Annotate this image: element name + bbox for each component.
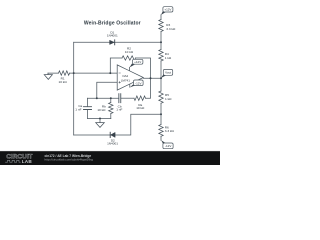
wire Rb branch bottom lead bbox=[110, 114, 112, 119]
svg-text:1N4001: 1N4001 bbox=[107, 141, 118, 145]
flag -12V op-amp bbox=[130, 80, 143, 87]
wire left vertical (top limiter to bottom limiter) bbox=[73, 42, 75, 135]
wire rail R4-R5 bbox=[160, 61, 162, 91]
svg-text:3.3 kΩ: 3.3 kΩ bbox=[166, 27, 176, 31]
wire rail R6 bottom lead bbox=[160, 136, 162, 140]
wire series arm drop bbox=[146, 78, 151, 98]
wire noninverting tap bbox=[97, 82, 117, 98]
svg-text:1 kΩ: 1 kΩ bbox=[165, 97, 172, 101]
svg-text:R3: R3 bbox=[166, 23, 170, 27]
svg-text:1N4001: 1N4001 bbox=[107, 34, 118, 38]
diode D2 bbox=[110, 132, 115, 138]
footer bar bbox=[0, 151, 220, 165]
svg-text:R4: R4 bbox=[165, 52, 169, 56]
resistor R2 bbox=[122, 56, 136, 60]
svg-text:Wein-Bridge Oscillator: Wein-Bridge Oscillator bbox=[84, 21, 141, 27]
wire Ra to Cb bbox=[121, 97, 134, 99]
svg-text:-12V: -12V bbox=[135, 82, 141, 86]
flag -12V bottom bbox=[161, 140, 173, 148]
diode D1 bbox=[110, 39, 115, 45]
flag +12V op-amp bbox=[130, 59, 143, 67]
component value labels bbox=[59, 23, 176, 145]
junction node dots bbox=[73, 41, 162, 119]
capacitor Cb bbox=[119, 94, 121, 103]
wire rail R3-R4 bbox=[160, 32, 162, 50]
op-amp OA2 body bbox=[117, 65, 143, 90]
wire Ca branch bbox=[87, 98, 89, 118]
schematic title bbox=[84, 21, 141, 27]
svg-text:10 kΩ: 10 kΩ bbox=[97, 108, 106, 112]
ground G2 stub bbox=[99, 119, 101, 123]
svg-text:10 kΩ: 10 kΩ bbox=[59, 80, 68, 84]
svg-text:3.3 kΩ: 3.3 kΩ bbox=[165, 129, 175, 133]
svg-text:+12V: +12V bbox=[164, 8, 171, 12]
capacitor Ca bbox=[84, 107, 92, 110]
svg-text:10 kΩ: 10 kΩ bbox=[136, 106, 145, 110]
wire top limiter (node A to node at right rail) bbox=[74, 41, 161, 43]
svg-text:1 nF: 1 nF bbox=[116, 107, 122, 111]
svg-text:LAB: LAB bbox=[22, 159, 33, 164]
wire output bbox=[143, 77, 161, 79]
resistor R4 bbox=[159, 50, 163, 62]
resistor R3 bbox=[159, 20, 163, 32]
wire bottom limiter bbox=[74, 114, 161, 135]
wire inverting input net bbox=[48, 72, 117, 74]
flag Vout bbox=[161, 69, 173, 78]
wire Rb branch top lead bbox=[110, 98, 112, 102]
wire feedback left vertical bbox=[110, 58, 122, 73]
resistor R5 bbox=[159, 91, 163, 103]
svg-text:OA2: OA2 bbox=[122, 74, 128, 78]
wire feedback right to output bbox=[136, 58, 151, 78]
svg-text:R5: R5 bbox=[165, 93, 169, 97]
svg-text:10 kΩ: 10 kΩ bbox=[125, 50, 134, 54]
svg-text:+12V: +12V bbox=[134, 60, 141, 64]
ground G1 bbox=[44, 75, 52, 80]
resistor Ra bbox=[134, 96, 146, 100]
footer caption line 1 bbox=[45, 154, 94, 162]
resistor Rb bbox=[109, 103, 113, 114]
flag +12V top bbox=[161, 7, 173, 15]
svg-text:Vout: Vout bbox=[165, 71, 171, 75]
wire rail R5-R6 bbox=[160, 103, 162, 124]
CircuitLab logo wordmark bbox=[6, 153, 32, 164]
op-amp OA2 power pin top bbox=[129, 67, 131, 71]
CircuitLab logo waveform bbox=[5, 160, 20, 162]
svg-text:http://circuitlab.com/c/pvb4kq: http://circuitlab.com/c/pvb4kqw59rg bbox=[45, 157, 94, 161]
wire right rail top lead bbox=[160, 15, 162, 20]
svg-text:1 kΩ: 1 kΩ bbox=[165, 56, 172, 60]
wire Cb to plus node bbox=[88, 97, 119, 99]
op-amp OA2 power pin bottom bbox=[129, 84, 131, 87]
op-amp OA2 labels bbox=[121, 74, 131, 82]
svg-text:1 nF: 1 nF bbox=[75, 108, 81, 112]
resistor R6 bbox=[159, 125, 163, 137]
ground G2 bbox=[96, 123, 105, 128]
wire parallel box bottom bbox=[88, 118, 111, 120]
svg-text:-12V: -12V bbox=[165, 144, 171, 148]
resistor R1 bbox=[59, 71, 70, 75]
ground G1 stub bbox=[47, 73, 49, 75]
svg-text:LM741: LM741 bbox=[121, 78, 131, 82]
